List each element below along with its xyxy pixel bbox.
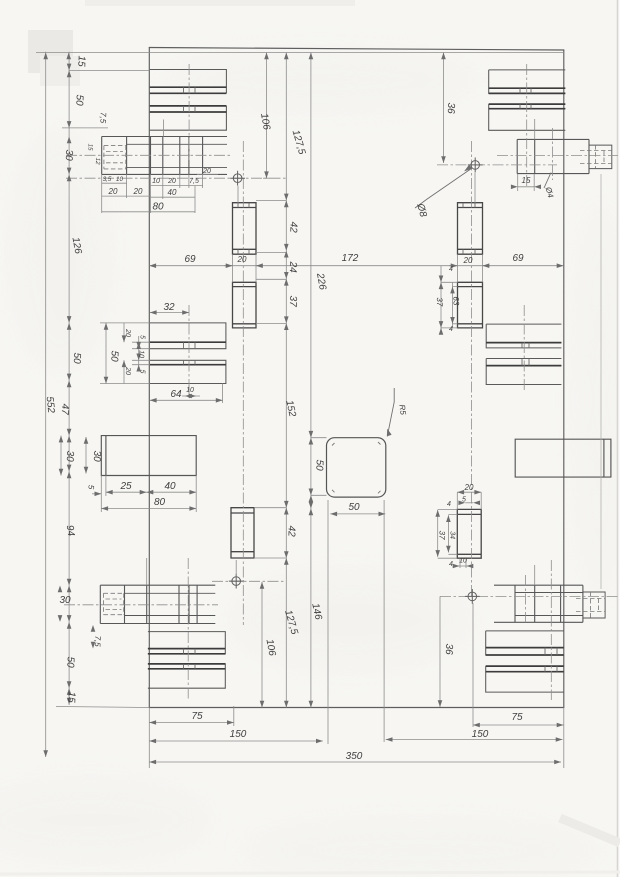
svg-text:552: 552 <box>44 396 57 414</box>
slot upper-left <box>233 203 257 255</box>
svg-text:7,5: 7,5 <box>98 112 107 124</box>
rail block mid-left 2 <box>150 360 226 383</box>
fin thick edge BL d <box>148 668 225 670</box>
slot UR 8.9 dim line <box>452 282 454 328</box>
arrowheads <box>43 53 563 765</box>
svg-text:20: 20 <box>237 255 247 264</box>
fin thick edge BL c <box>148 663 225 665</box>
dimension stub 20 left slot <box>224 265 263 267</box>
svg-text:42: 42 <box>285 525 296 537</box>
svg-text:30: 30 <box>64 450 75 462</box>
fin thick edge BL a <box>148 648 225 650</box>
connector slot UL top to chain <box>256 199 286 201</box>
stub above C3 <box>235 560 237 577</box>
rail block mid-right 2 <box>486 359 561 385</box>
svg-text:12: 12 <box>94 157 101 165</box>
stub below C2 <box>474 173 476 204</box>
hinge TR 15 extensions <box>518 119 535 191</box>
slot UL extension verticals <box>233 254 483 282</box>
svg-text:36: 36 <box>443 643 454 655</box>
svg-text:36: 36 <box>445 102 456 114</box>
band tick dashes BR fins <box>545 648 557 672</box>
centerline horizontal through node C3 <box>212 580 284 582</box>
fin thick edge TL d <box>150 111 227 113</box>
slot LR 5 dim stub <box>465 502 473 504</box>
hidden dashed box hinge top-left <box>104 146 126 169</box>
dimension stub 20 right slot <box>449 265 490 267</box>
slot lower-left <box>231 508 254 558</box>
svg-text:30: 30 <box>59 595 71 606</box>
svg-text:24: 24 <box>287 260 298 273</box>
fin block bottom-left rail 2 <box>148 664 225 688</box>
svg-text:50: 50 <box>348 502 360 513</box>
hinge top-left inner lines <box>127 144 227 167</box>
step block 25-40 dim row <box>106 491 196 493</box>
hinge TL dim row1 left <box>102 182 127 184</box>
svg-text:5: 5 <box>138 369 145 373</box>
svg-text:37: 37 <box>437 530 446 540</box>
centerline horizontal hinge top-right <box>497 154 618 156</box>
centerline vertical right slot column <box>471 141 473 598</box>
hinge TL dim row2 right 40 <box>151 196 196 198</box>
svg-text:80: 80 <box>154 497 166 508</box>
step block mid-left <box>101 436 196 476</box>
hinge assembly top-left body <box>102 137 227 175</box>
part outline left edge <box>148 48 150 708</box>
svg-text:94: 94 <box>64 524 77 537</box>
fin thick edge TR c <box>489 103 566 105</box>
leader line Ø8 to node C2 <box>415 168 472 208</box>
dimension row 69 right <box>483 265 564 267</box>
fin thick edge TL a <box>150 86 227 88</box>
bottom dim 150 right <box>386 739 563 741</box>
fin thick edge BR d <box>486 671 564 673</box>
rail thick edge ML b <box>150 364 226 366</box>
svg-text:15: 15 <box>522 176 531 185</box>
rounded square pocket R5 <box>327 438 386 497</box>
svg-text:4: 4 <box>449 326 453 333</box>
connector slot UL bottom to chain <box>256 251 286 253</box>
slot LR 20 dim line <box>457 491 481 493</box>
rails 32 dim line <box>150 312 189 314</box>
part outline top edge <box>149 48 564 51</box>
svg-text:10: 10 <box>152 178 160 185</box>
hinge TL dim 20 stub right <box>197 174 218 176</box>
scan top strip <box>85 0 355 6</box>
svg-text:50: 50 <box>71 352 82 364</box>
rails 64 dim line <box>150 399 223 401</box>
rails 64 extension <box>189 384 223 404</box>
leader line Ø4 hinge top-right <box>544 173 551 189</box>
band tick dashes ML rails <box>184 342 196 365</box>
hinge bottom-right extension box <box>583 592 605 618</box>
svg-text:20: 20 <box>202 168 211 175</box>
centerline horizontal hinge bottom-right <box>440 595 618 597</box>
centerline vertical left slot column <box>242 141 244 625</box>
pocket 50 vertical extension <box>311 438 327 496</box>
leader arrowhead C2 <box>465 165 472 171</box>
slot UR 37 dim line <box>440 266 442 331</box>
svg-text:20: 20 <box>463 256 473 265</box>
centerline vertical hinge bottom-right <box>524 575 526 622</box>
svg-text:350: 350 <box>346 751 363 762</box>
dimension line 552 vertical <box>45 52 47 757</box>
centerline vertical bottom-right fins <box>550 560 552 700</box>
svg-text:10: 10 <box>137 350 144 358</box>
svg-text:4: 4 <box>447 501 451 508</box>
rail thick edge MR b <box>486 365 561 367</box>
svg-text:40: 40 <box>168 188 177 197</box>
part outline right edge <box>563 50 565 708</box>
fin thick edge BL b <box>148 653 225 655</box>
pocket corner radius ticks <box>332 442 381 493</box>
node C2 position marker circle <box>471 161 480 170</box>
fin thick edge TL b <box>150 92 227 94</box>
hinge TL 20 stub text line <box>197 174 199 176</box>
hinge assembly top-right body <box>517 139 589 173</box>
svg-text:20: 20 <box>108 187 118 196</box>
svg-text:40: 40 <box>164 481 176 492</box>
hinge top-right extension box <box>589 145 612 169</box>
step block mid-right <box>515 439 611 477</box>
svg-text:80: 80 <box>152 202 164 213</box>
slot mid-right <box>458 282 483 328</box>
bottom edge extension left <box>56 707 149 708</box>
fin thick edge TL c <box>150 105 227 107</box>
slot lower-right <box>457 509 481 558</box>
svg-text:30: 30 <box>91 450 102 462</box>
rails small dim verticals <box>124 323 139 384</box>
svg-text:150: 150 <box>472 729 489 740</box>
fin block bottom-right rail 1 <box>486 631 564 655</box>
fin thick edge BR a <box>486 647 564 649</box>
svg-text:15: 15 <box>65 691 76 703</box>
rails extension horizontals <box>100 323 150 384</box>
svg-text:150: 150 <box>230 729 247 740</box>
svg-text:4: 4 <box>449 561 453 568</box>
rail block mid-left 1 <box>150 323 226 349</box>
slot LR extension lines <box>438 492 482 568</box>
connector slot LL top to chain <box>254 507 286 509</box>
connector slot LL bottom to chain <box>254 557 286 559</box>
centerline vertical bottom-left fins <box>187 558 189 700</box>
centerline vertical mid-right rails <box>523 305 525 392</box>
svg-text:30: 30 <box>63 149 74 161</box>
slot upper-right <box>458 203 483 255</box>
step block extension verticals <box>101 476 196 513</box>
centerline horizontal hinge top-left <box>66 154 230 156</box>
dimension line 226-146 vertical <box>310 53 312 708</box>
pocket 50 dim line bottom <box>330 513 385 515</box>
node C4 position marker circle <box>468 592 477 601</box>
dimension line 127.5 chain vertical <box>285 53 287 708</box>
svg-text:64: 64 <box>170 389 182 400</box>
connector slot ML bottom to chain <box>256 323 286 325</box>
node C1 position marker circle <box>233 174 242 183</box>
svg-text:50: 50 <box>73 94 84 106</box>
step block 80 dim row <box>101 508 196 510</box>
bottom extension verticals <box>149 500 564 768</box>
step block 30 dim line B <box>85 437 87 474</box>
dimension line 36 bottom-right <box>439 596 441 707</box>
stub below C1 <box>237 186 239 203</box>
leader line R5 to pocket corner <box>387 388 394 436</box>
svg-text:47: 47 <box>59 403 70 415</box>
svg-text:4: 4 <box>449 266 453 273</box>
centerline horizontal through node C1 <box>66 177 286 179</box>
centerline vertical hinge top-right <box>552 128 554 180</box>
extension line y127.9 <box>62 127 108 129</box>
svg-text:42: 42 <box>287 221 298 233</box>
centerline vertical top-right fins <box>526 64 528 186</box>
hinge BL extension verticals <box>147 558 535 585</box>
scan streak bottom-right <box>560 818 620 843</box>
slot LR 10 dim stub <box>455 565 470 567</box>
dimension line 36 top-right <box>443 53 445 164</box>
rails 50 dim line inner <box>105 323 107 384</box>
dimension row 172 <box>256 265 458 267</box>
band tick dashes slots UL <box>238 203 249 255</box>
svg-text:20: 20 <box>124 366 131 375</box>
svg-text:20: 20 <box>133 187 143 196</box>
svg-text:3,5: 3,5 <box>103 176 112 183</box>
centerline vertical top-left fins <box>188 64 190 160</box>
hinge bottom-right inner lines <box>515 593 583 616</box>
svg-text:63: 63 <box>451 296 460 306</box>
svg-text:25: 25 <box>119 481 132 492</box>
hinge TL dim row1 right <box>151 185 203 187</box>
slot LR 37 dim line <box>437 510 439 557</box>
dimension line 106 top <box>266 53 268 179</box>
svg-text:15: 15 <box>75 55 86 67</box>
svg-text:5: 5 <box>462 497 466 504</box>
rail thick edge ML a <box>150 341 226 343</box>
svg-text:50: 50 <box>313 459 324 471</box>
hidden dashed lines hinge bottom-right <box>576 592 605 618</box>
band tick dashes slots UR <box>463 203 475 255</box>
svg-text:50: 50 <box>64 656 75 668</box>
fin thick edge BR c <box>486 665 564 667</box>
svg-text:34: 34 <box>448 531 455 539</box>
svg-text:7,5: 7,5 <box>93 635 102 647</box>
svg-text:7,5: 7,5 <box>189 178 199 185</box>
centerline horizontal through node C2 <box>437 164 557 166</box>
dimension row 69 left <box>149 265 232 267</box>
slot mid-left <box>233 282 257 328</box>
hidden dashed box hinge bottom-left <box>104 593 124 614</box>
dimension line left chain vertical <box>68 52 70 705</box>
svg-text:69: 69 <box>512 253 524 264</box>
svg-text:75: 75 <box>511 712 523 723</box>
fin block bottom-right rail 2 <box>486 666 564 692</box>
svg-text:R5: R5 <box>397 404 407 416</box>
band tick dashes BL fins <box>184 649 196 669</box>
fin block top-right rail 1 <box>489 70 566 94</box>
band tick dashes TL fins <box>184 87 196 112</box>
extension line 15 lower <box>69 70 150 72</box>
node C3 position marker circle <box>232 577 241 586</box>
hinge assembly bottom-left body <box>100 585 215 623</box>
centerline vertical mid-left rails <box>188 305 190 395</box>
extension line right hinge holes <box>600 174 602 589</box>
svg-text:20: 20 <box>464 483 474 492</box>
hinge TL dim row3 80 <box>102 211 195 213</box>
bottom dim 350 <box>149 761 561 763</box>
connector slot ML top to chain <box>256 278 286 280</box>
leader arrowhead R5 <box>387 430 391 436</box>
svg-text:20: 20 <box>167 178 176 185</box>
band tick dashes TR fins <box>520 88 531 109</box>
fin thick edge TR a <box>489 87 566 89</box>
svg-text:172: 172 <box>342 253 359 264</box>
svg-text:15: 15 <box>86 143 93 151</box>
svg-text:37: 37 <box>287 295 298 307</box>
fin thick edge TR b <box>489 92 566 94</box>
fin block top-left rail 1 <box>150 70 227 94</box>
rail block mid-right 1 <box>486 324 561 348</box>
fin block top-left rail 2 <box>150 106 227 130</box>
fin block top-right rail 2 <box>489 104 566 130</box>
svg-text:10: 10 <box>186 387 194 394</box>
paper right edge <box>617 0 619 877</box>
scan shading top-left patch <box>28 30 73 73</box>
centerline horizontal hinge bottom-left <box>64 604 218 606</box>
svg-text:32: 32 <box>163 302 175 313</box>
hidden dashed lines hinge top-right <box>580 145 612 169</box>
hinge bottom-left inner lines <box>125 593 216 615</box>
rail thick edge MR a <box>486 342 561 344</box>
bottom dim 75 right <box>473 724 564 726</box>
rails 10 dim stub <box>182 395 200 397</box>
svg-text:5: 5 <box>138 335 145 339</box>
hinge TL extension verticals <box>102 174 203 213</box>
svg-text:75: 75 <box>191 711 203 722</box>
svg-text:20: 20 <box>124 328 131 337</box>
svg-text:10: 10 <box>459 558 467 565</box>
svg-text:69: 69 <box>184 254 196 265</box>
dimension line overall top <box>36 52 563 54</box>
dimension line 106 bottom <box>261 582 263 708</box>
step block 5 dim stub <box>92 493 101 495</box>
hinge TL dim row2 left <box>102 195 151 197</box>
step block 30 dim line A <box>60 436 62 476</box>
svg-text:50: 50 <box>108 350 119 362</box>
slot UR extension lines <box>441 282 458 328</box>
hinge TR 15 dim line <box>518 186 535 188</box>
C1 dim tick <box>263 177 270 179</box>
part outline bottom edge <box>149 707 564 709</box>
bottom dim 150 left <box>149 740 322 742</box>
slot LR 34 dim line <box>447 515 449 552</box>
fin block bottom-left rail 1 <box>148 632 225 654</box>
band tick dashes MR rails <box>522 343 529 366</box>
bottom dim 75 left <box>149 722 234 724</box>
hinge assembly bottom-right body <box>494 585 583 622</box>
fin thick edge TR d <box>489 108 566 110</box>
svg-text:37: 37 <box>435 297 444 307</box>
scan streak bottom <box>0 872 620 874</box>
hinge TL upright extension <box>163 120 165 137</box>
fin thick edge BR b <box>486 654 564 656</box>
svg-text:10: 10 <box>116 176 123 183</box>
